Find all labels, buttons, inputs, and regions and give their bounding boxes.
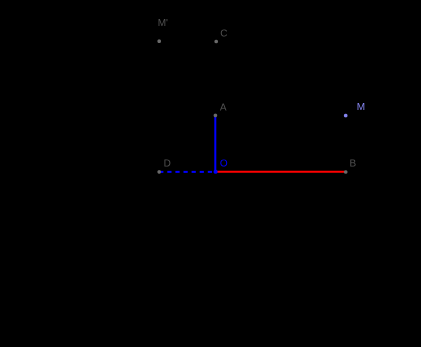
node O	[214, 170, 218, 174]
node M	[344, 114, 348, 118]
wire: segment AO (blue vertical)	[214, 115, 216, 171]
node B	[344, 170, 348, 174]
node A	[214, 114, 218, 118]
svg-text:M: M	[357, 102, 365, 113]
svg-text:C: C	[220, 29, 227, 40]
svg-text:M': M'	[158, 18, 168, 29]
node D	[157, 170, 161, 174]
node M'	[157, 39, 161, 43]
wire: segment OB (red)	[216, 171, 346, 173]
svg-text:O: O	[220, 159, 228, 170]
svg-text:D: D	[164, 159, 171, 170]
wire: segment DO (dashed blue)	[159, 171, 215, 173]
svg-text:A: A	[220, 103, 227, 114]
svg-text:B: B	[350, 159, 357, 170]
node C	[214, 40, 218, 44]
